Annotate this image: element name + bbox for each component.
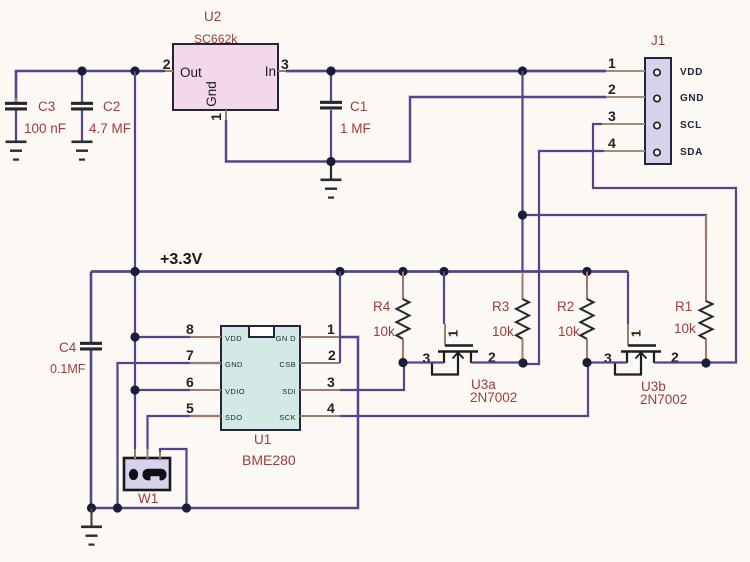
svg-text:C4: C4 (59, 340, 77, 355)
wire pullup horizontal to R1 (523, 215, 707, 240)
svg-text:Out: Out (180, 65, 202, 80)
resistor R1 (674, 215, 713, 363)
capacitor C2 (71, 71, 131, 141)
node R2 bottom (582, 358, 591, 367)
wire VDD top rail right segment (286, 70, 606, 73)
svg-text:5: 5 (186, 400, 194, 416)
svg-text:1: 1 (208, 113, 224, 121)
svg-text:C1: C1 (350, 99, 367, 114)
svg-text:SCK: SCK (279, 413, 296, 422)
node gnd rail W1 (182, 503, 191, 512)
node R3 bottom (518, 358, 527, 367)
capacitor C4 (50, 340, 102, 376)
wire SDA net (523, 151, 604, 364)
wire +3.3V rail (91, 270, 628, 273)
svg-text:2: 2 (608, 81, 616, 97)
node pullup tap top (518, 66, 527, 75)
svg-text:SC662k: SC662k (194, 32, 238, 46)
svg-text:SDO: SDO (225, 413, 242, 422)
svg-text:4: 4 (327, 400, 335, 416)
U1 pin 7 (118, 363, 222, 508)
wire VDD top rail left segment (16, 71, 165, 103)
node CSB tap (335, 267, 344, 276)
svg-text:2N7002: 2N7002 (640, 392, 687, 407)
svg-text:1: 1 (629, 330, 644, 337)
node C2 top (77, 66, 86, 75)
svg-text:R2: R2 (557, 299, 574, 314)
U1 pin 4 (SCK) (300, 415, 340, 417)
resistor R2 (557, 272, 594, 363)
svg-text:R1: R1 (675, 299, 692, 314)
svg-text:2: 2 (163, 56, 171, 72)
svg-text:1: 1 (608, 55, 616, 71)
svg-text:7: 7 (186, 347, 194, 363)
svg-text:6: 6 (186, 374, 194, 390)
wire U3b drain (654, 361, 706, 363)
svg-text:W1: W1 (138, 491, 158, 506)
svg-text:SDI: SDI (282, 387, 296, 396)
svg-text:1: 1 (446, 330, 461, 337)
node C1 gnd (326, 157, 335, 166)
U1 pin 6 (135, 389, 190, 391)
resistor R3 (492, 272, 529, 364)
J1 pin 1 (606, 70, 645, 72)
svg-text:0.1MF: 0.1MF (50, 362, 86, 376)
svg-text:3: 3 (327, 374, 335, 390)
svg-text:1: 1 (327, 321, 335, 337)
capacitor C1 (320, 71, 371, 162)
transistor U3a 2N7002 (423, 272, 518, 406)
svg-text:Gnd: Gnd (204, 81, 219, 107)
svg-text:U2: U2 (204, 9, 221, 24)
svg-text:10k: 10k (674, 321, 696, 336)
node R4 bottom (398, 358, 407, 367)
node 3.3V rail tap (130, 267, 139, 276)
svg-text:BME280: BME280 (242, 452, 296, 468)
svg-text:R3: R3 (492, 299, 509, 314)
J1 pin 2 (606, 96, 645, 98)
svg-text:10k: 10k (373, 324, 395, 339)
svg-text:2: 2 (328, 347, 336, 363)
transistor U3b 2N7002 (604, 272, 687, 408)
node C1 top (326, 66, 335, 75)
wire W1 pin3 to gnd rail (160, 449, 187, 508)
jumper W1 (124, 458, 170, 506)
ground C1 (330, 162, 332, 180)
svg-text:10k: 10k (492, 324, 514, 339)
svg-text:3: 3 (608, 108, 616, 124)
node 3.3V tap top (130, 66, 139, 75)
ground C2 (72, 141, 93, 161)
U1 pin 2 (CSB) (300, 362, 340, 364)
svg-text:In: In (265, 64, 276, 79)
svg-text:4: 4 (608, 135, 616, 151)
J1 pin 4 (604, 150, 645, 152)
svg-text:VDD: VDD (225, 334, 242, 343)
svg-text:10k: 10k (558, 324, 580, 339)
node gnd rail left (87, 503, 96, 512)
wire U2 gnd to J1 pin2 (226, 97, 606, 162)
U2 pin 3 (278, 70, 286, 72)
wire U3a drain (471, 361, 523, 363)
svg-text:3: 3 (281, 56, 289, 72)
U1 pin 3 (SDI) (300, 389, 340, 391)
sensor U1 BME280 (221, 326, 300, 468)
U2 pin 1 (225, 110, 227, 122)
svg-text:GN D: GN D (276, 334, 297, 343)
svg-text:100 nF: 100 nF (24, 121, 66, 136)
svg-text:U1: U1 (254, 432, 271, 447)
wire SCL net (593, 124, 736, 363)
svg-text:8: 8 (186, 321, 194, 337)
U1 pin 5 (148, 416, 222, 449)
node R2 top (582, 267, 591, 276)
resistor R4 (373, 272, 410, 363)
svg-text:1 MF: 1 MF (340, 121, 371, 136)
connector J1 (645, 33, 704, 164)
capacitor C3 (5, 98, 66, 141)
svg-text:C3: C3 (38, 99, 55, 114)
node pin6 tap (130, 385, 139, 394)
svg-text:C2: C2 (103, 99, 120, 114)
svg-text:GND: GND (225, 360, 243, 369)
ground bottom left (90, 508, 92, 526)
ground C3 (6, 141, 27, 161)
U1 pin 1 (GND) (300, 336, 340, 338)
svg-text:R4: R4 (373, 299, 391, 314)
node pin8 tap (130, 332, 139, 341)
node pullup tee (518, 210, 527, 219)
svg-text:2N7002: 2N7002 (470, 390, 517, 405)
svg-text:SCL: SCL (680, 120, 702, 131)
node gnd rail pin7 (113, 503, 122, 512)
regulator U2 SC662k (173, 9, 278, 110)
node R4 top (398, 267, 407, 276)
J1 pin 3 (602, 123, 645, 125)
svg-text:4.7 MF: 4.7 MF (89, 121, 131, 136)
svg-text:GND: GND (680, 93, 704, 104)
wire C4 branch (90, 272, 93, 343)
node U3a gate tap (439, 267, 448, 276)
node R1 bottom (701, 358, 710, 367)
W1 pin stubs (134, 449, 136, 460)
U2 pin 2 (165, 70, 173, 72)
svg-text:VDIO: VDIO (225, 387, 245, 396)
svg-text:J1: J1 (651, 33, 665, 48)
svg-text:CSB: CSB (279, 360, 296, 369)
wire U3a source (403, 361, 444, 363)
wire U3b source (587, 361, 627, 363)
wire 3.3V main vertical (134, 71, 136, 449)
svg-text:VDD: VDD (680, 67, 703, 78)
U1 pin 8 (135, 336, 190, 338)
svg-text:+3.3V: +3.3V (160, 251, 203, 268)
svg-text:SDA: SDA (680, 147, 703, 158)
wire VDD pullup vertical (521, 71, 523, 272)
